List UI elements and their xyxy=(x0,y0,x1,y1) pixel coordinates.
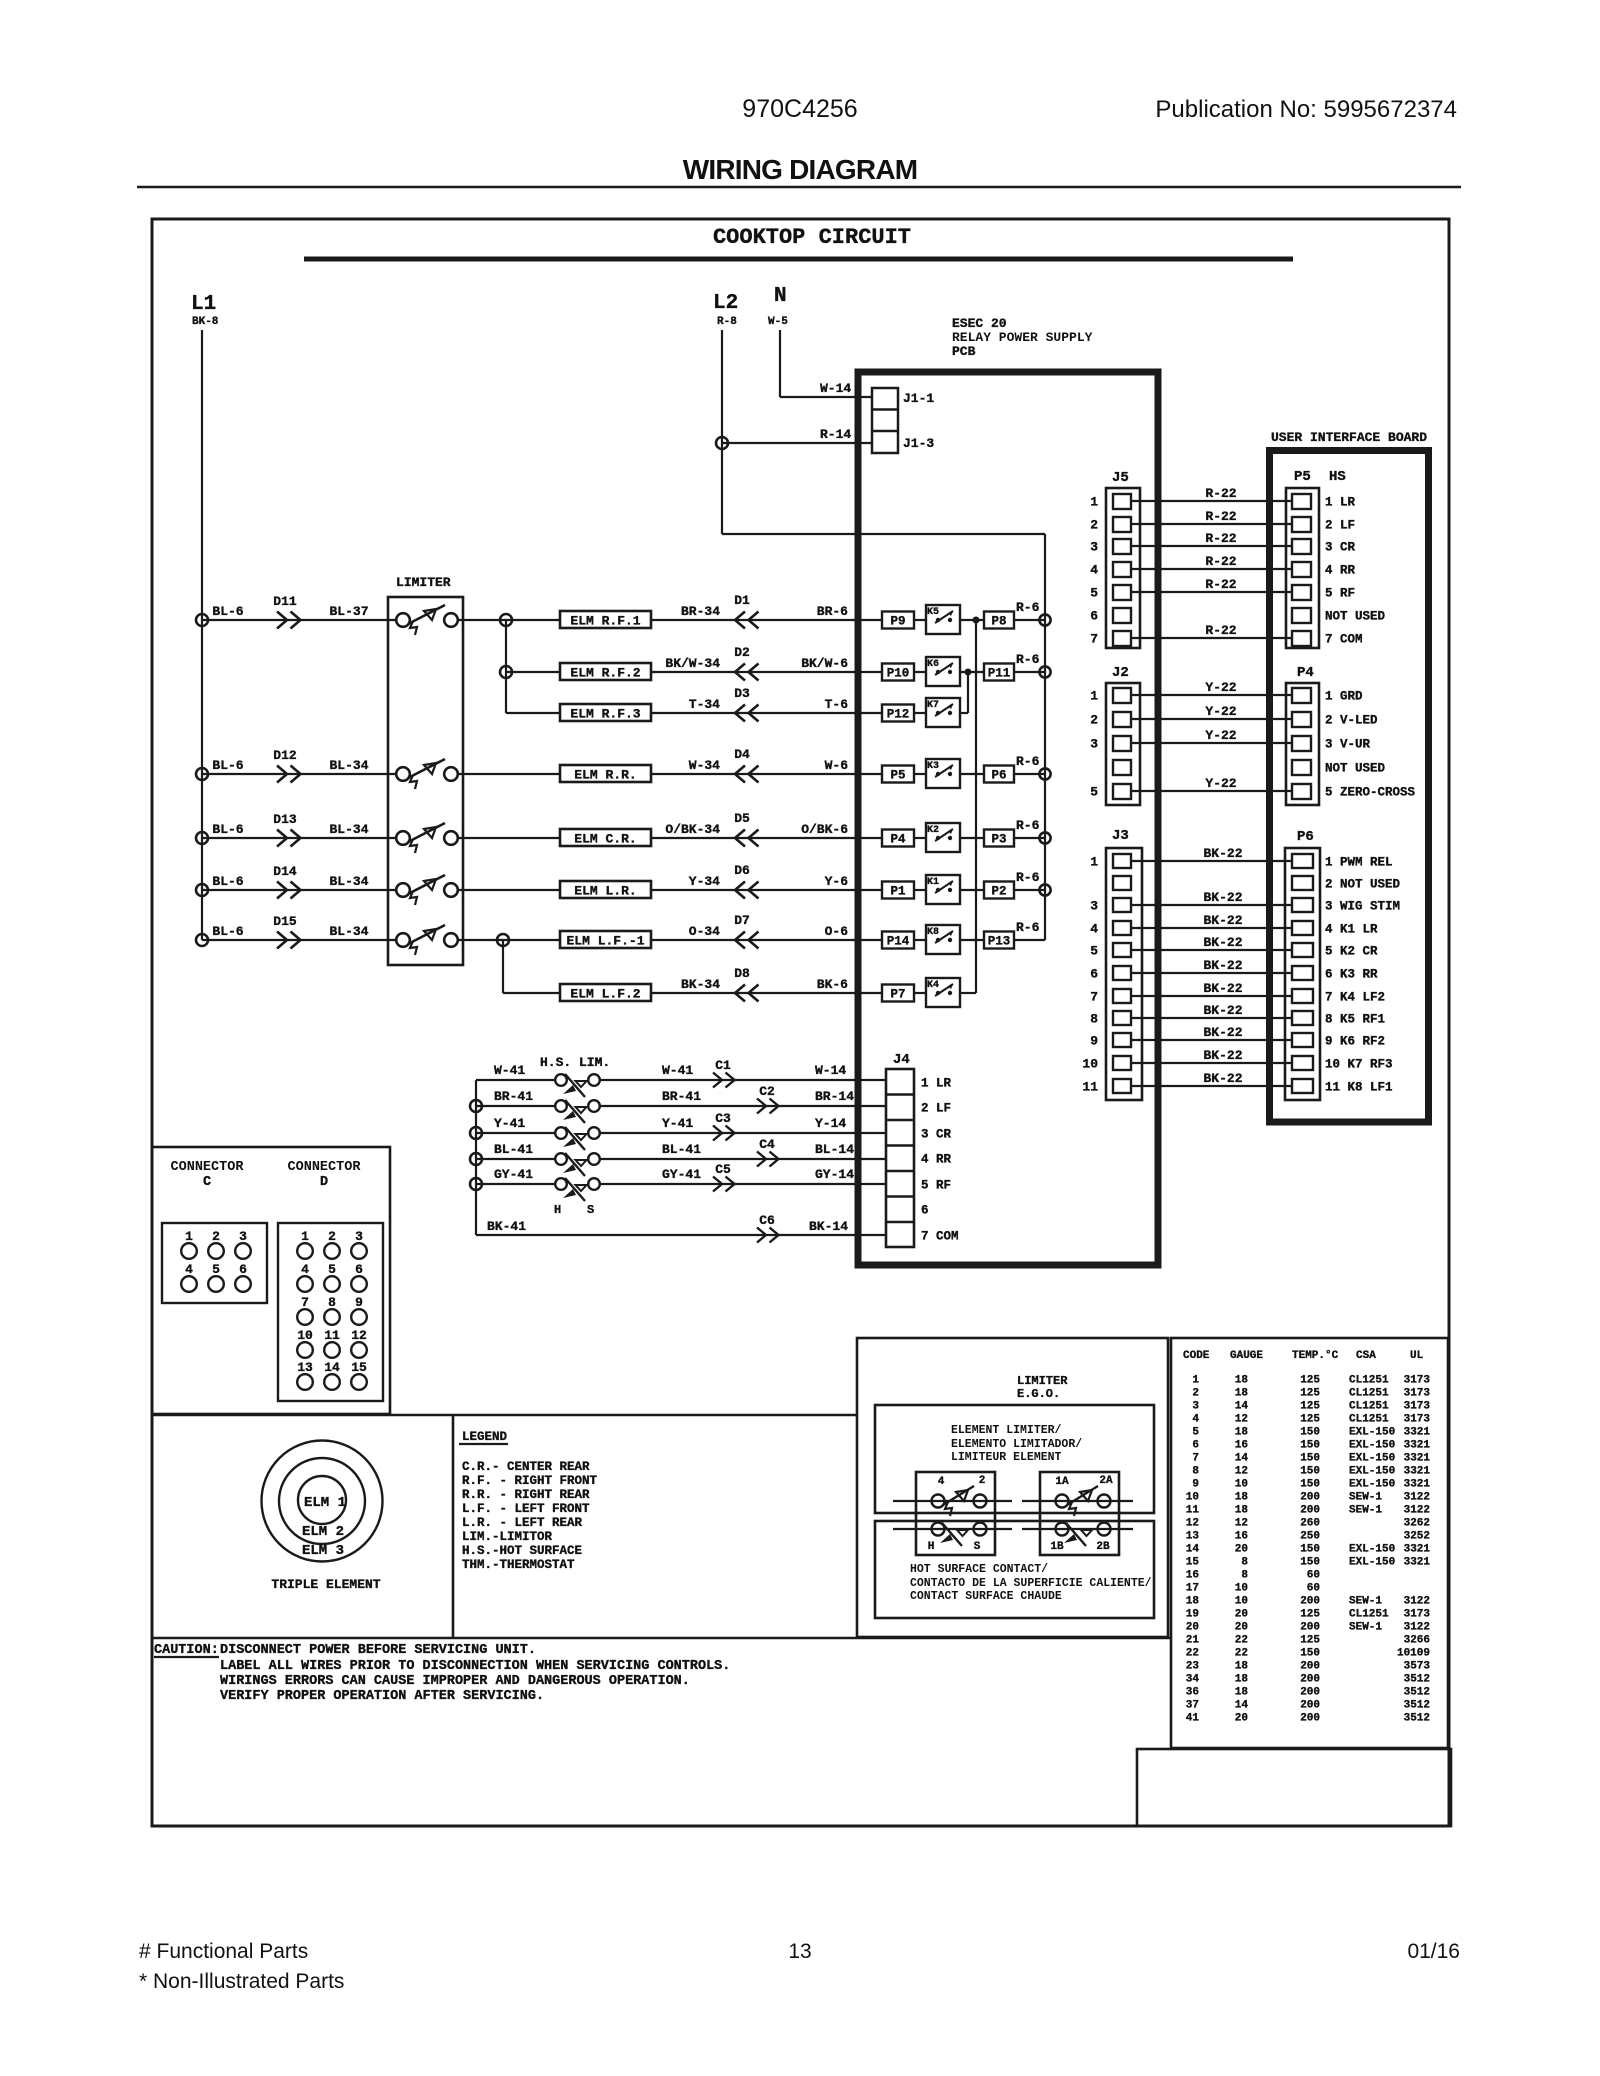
wire Y-41 to hot-surface switch xyxy=(476,1132,555,1134)
svg-text:PCB: PCB xyxy=(952,344,976,359)
wire from limiter switch to element ELM C.R. xyxy=(458,837,560,839)
svg-text:22: 22 xyxy=(1235,1648,1248,1660)
element limiter switch box pins 1A-2A xyxy=(1040,1472,1119,1555)
svg-text:13: 13 xyxy=(297,1360,313,1375)
svg-text:R-6: R-6 xyxy=(1016,600,1040,615)
connector P5 pin 2 LF xyxy=(1292,517,1311,532)
svg-text:D3: D3 xyxy=(734,686,750,701)
svg-text:P6: P6 xyxy=(991,769,1006,783)
svg-text:13: 13 xyxy=(1186,1531,1200,1543)
wire Y-22 J2 to P4 xyxy=(1131,718,1292,720)
wire BL-41 to hot-surface switch xyxy=(476,1158,555,1160)
svg-text:3573: 3573 xyxy=(1404,1661,1431,1673)
junction circle on R-6 bus xyxy=(1039,768,1050,779)
svg-text:CODE: CODE xyxy=(1183,1350,1210,1362)
svg-text:R-6: R-6 xyxy=(1016,652,1040,667)
svg-text:36: 36 xyxy=(1186,1687,1199,1699)
svg-text:BL-34: BL-34 xyxy=(329,758,368,773)
svg-text:TRIPLE ELEMENT: TRIPLE ELEMENT xyxy=(271,1577,380,1592)
svg-text:CONNECTOR: CONNECTOR xyxy=(171,1160,245,1175)
svg-text:5: 5 xyxy=(1090,785,1098,800)
svg-text:23: 23 xyxy=(1186,1661,1200,1673)
svg-text:D15: D15 xyxy=(273,914,297,929)
svg-text:3 V-UR: 3 V-UR xyxy=(1325,738,1371,752)
svg-text:1B: 1B xyxy=(1050,1541,1064,1553)
svg-text:CL1251: CL1251 xyxy=(1349,1414,1389,1426)
svg-text:D11: D11 xyxy=(273,594,297,609)
svg-text:W-41: W-41 xyxy=(662,1063,693,1078)
connector J2 pin xyxy=(1113,784,1131,799)
svg-text:3321: 3321 xyxy=(1404,1479,1431,1491)
svg-text:7: 7 xyxy=(1090,632,1098,647)
svg-text:LIMITER: LIMITER xyxy=(396,575,451,590)
svg-text:970C4256: 970C4256 xyxy=(742,95,857,123)
wire P5 to relay K3 xyxy=(914,773,926,775)
svg-text:6: 6 xyxy=(239,1262,247,1277)
svg-text:ELM R.F.1: ELM R.F.1 xyxy=(570,614,640,629)
svg-text:1: 1 xyxy=(301,1229,309,1244)
svg-text:K8: K8 xyxy=(927,927,939,938)
connector P6 pin 9 K6 RF2 xyxy=(1292,1033,1313,1047)
wire BK-22 J3 to P6 xyxy=(1131,1039,1292,1041)
svg-text:D7: D7 xyxy=(734,913,750,928)
svg-text:4: 4 xyxy=(185,1262,193,1277)
svg-text:3321: 3321 xyxy=(1404,1544,1431,1556)
svg-text:BR-14: BR-14 xyxy=(815,1089,854,1104)
wire P6 to R-6 bus xyxy=(1014,773,1045,775)
svg-text:J4: J4 xyxy=(893,1052,910,1068)
svg-text:1: 1 xyxy=(1090,855,1098,870)
svg-text:P9: P9 xyxy=(890,615,905,629)
wire Y-22 J2 to P4 xyxy=(1131,742,1292,744)
svg-text:3173: 3173 xyxy=(1404,1375,1431,1387)
wire branch to element ELM L.F.2 xyxy=(503,992,560,994)
svg-text:10: 10 xyxy=(1082,1057,1098,1072)
svg-text:150: 150 xyxy=(1300,1427,1320,1439)
wire hot-surface bus vertical xyxy=(475,1080,477,1235)
svg-text:5: 5 xyxy=(1192,1427,1199,1439)
connector P5 pin 1 LR xyxy=(1292,494,1311,509)
svg-text:200: 200 xyxy=(1300,1622,1320,1634)
svg-text:11: 11 xyxy=(324,1328,340,1343)
svg-text:150: 150 xyxy=(1300,1440,1320,1452)
svg-text:3122: 3122 xyxy=(1404,1505,1430,1517)
svg-text:C.R.- CENTER REAR: C.R.- CENTER REAR xyxy=(462,1460,590,1474)
svg-text:CAUTION:: CAUTION: xyxy=(154,1643,219,1658)
divider between triple element and legend xyxy=(452,1415,455,1638)
wire Y-22 J2 to P4 xyxy=(1131,790,1292,792)
connector P4 pin NOT USED xyxy=(1292,760,1311,775)
svg-text:P13: P13 xyxy=(988,935,1011,949)
svg-text:J1-1: J1-1 xyxy=(903,391,934,406)
junction circle R.F.1 xyxy=(500,614,512,626)
wire L1 vertical bus xyxy=(201,330,203,940)
wire R-22 J5 to P5 xyxy=(1131,545,1292,547)
svg-text:SEW-1: SEW-1 xyxy=(1349,1622,1382,1634)
wire from limiter switch to element ELM R.R. xyxy=(458,773,560,775)
connector arrows C3 xyxy=(713,1126,735,1141)
svg-text:R-6: R-6 xyxy=(1016,870,1040,885)
wire BK-22 J3 to P6 xyxy=(1131,1085,1292,1087)
node circle on L1 bus row D12 xyxy=(196,768,208,780)
svg-text:P12: P12 xyxy=(887,708,910,722)
connector J5 pin 1 xyxy=(1113,494,1131,509)
ESEC 20 relay power supply PCB box xyxy=(858,372,1158,1265)
svg-text:150: 150 xyxy=(1300,1453,1320,1465)
svg-text:3: 3 xyxy=(239,1229,247,1244)
svg-text:T-6: T-6 xyxy=(825,697,849,712)
wire BK/W-34 from ELM R.F.2 to ESEC P10 xyxy=(651,671,882,673)
svg-text:4: 4 xyxy=(1090,922,1098,937)
wire P14 to relay K8 xyxy=(914,939,926,941)
svg-text:TEMP.°C: TEMP.°C xyxy=(1292,1350,1339,1362)
svg-text:3321: 3321 xyxy=(1404,1427,1431,1439)
svg-text:3512: 3512 xyxy=(1404,1713,1430,1725)
svg-text:BK-22: BK-22 xyxy=(1203,958,1242,973)
junction dot at K5 output xyxy=(973,617,980,624)
svg-text:CONTACT SURFACE CHAUDE: CONTACT SURFACE CHAUDE xyxy=(910,1590,1062,1603)
connector J3 pin xyxy=(1113,1033,1131,1047)
junction circle on R-6 bus xyxy=(1039,884,1050,895)
wire BK-22 J3 to P6 xyxy=(1131,904,1292,906)
svg-text:3173: 3173 xyxy=(1404,1609,1431,1621)
connector J5 pin 4 xyxy=(1113,562,1131,577)
connector arrows D4 xyxy=(735,766,759,783)
svg-text:12: 12 xyxy=(1235,1518,1248,1530)
wire R-6 bus vertical xyxy=(1044,534,1046,940)
element limiter switch box pins 4-2 xyxy=(916,1472,995,1555)
svg-text:2 V-LED: 2 V-LED xyxy=(1325,714,1378,728)
svg-text:C2: C2 xyxy=(759,1084,775,1099)
connector C pin box xyxy=(162,1223,267,1303)
svg-text:260: 260 xyxy=(1300,1518,1320,1530)
wire from limiter switch to element ELM R.F.1 xyxy=(458,619,560,621)
element limiter contact 4-2 xyxy=(932,1495,945,1508)
wire P7 to relay K4 xyxy=(914,992,926,994)
wire BL-6 from L1 bus to limiter row D13 xyxy=(202,837,395,839)
junction circle on R-6 bus xyxy=(1039,614,1050,625)
svg-text:Y-22: Y-22 xyxy=(1205,680,1236,695)
svg-text:BK-8: BK-8 xyxy=(192,316,219,328)
svg-text:WIRING DIAGRAM: WIRING DIAGRAM xyxy=(683,154,918,185)
connector arrows D3 xyxy=(735,705,759,722)
terminal P11 xyxy=(984,664,1014,681)
divider line above caution xyxy=(152,1637,1171,1640)
terminal P14 xyxy=(882,932,914,949)
USER INTERFACE BOARD box xyxy=(1270,451,1429,1123)
wire Y-22 J2 to P4 xyxy=(1131,694,1292,696)
terminal P3 xyxy=(984,830,1014,847)
connector P6 pin 4 K1 LR xyxy=(1292,921,1313,935)
wire branch to element ELM R.F.2 xyxy=(506,671,560,673)
svg-text:UL: UL xyxy=(1410,1350,1424,1362)
wire BR-41 to hot-surface switch xyxy=(476,1105,555,1107)
svg-text:4 K1 LR: 4 K1 LR xyxy=(1325,923,1378,937)
svg-text:ELM R.F.2: ELM R.F.2 xyxy=(570,666,640,681)
element box ELM R.F.3 xyxy=(560,704,651,721)
svg-text:14: 14 xyxy=(1235,1700,1249,1712)
wire from limiter switch to element ELM L.R. xyxy=(458,889,560,891)
svg-text:5: 5 xyxy=(328,1262,336,1277)
connector P6 pin 11 K8 LF1 xyxy=(1292,1079,1313,1093)
relay contact K3 xyxy=(926,759,960,788)
svg-text:W-5: W-5 xyxy=(768,316,788,328)
limiter switch for row D14 xyxy=(396,883,410,897)
svg-text:41: 41 xyxy=(1186,1713,1200,1725)
wire R-22 J5 to P5 xyxy=(1131,500,1292,502)
svg-text:THM.-THERMOSTAT: THM.-THERMOSTAT xyxy=(462,1558,575,1572)
wire Y-34 from ELM L.R. to ESEC P1 xyxy=(651,889,882,891)
svg-text:125: 125 xyxy=(1300,1375,1320,1387)
svg-text:6 K3 RR: 6 K3 RR xyxy=(1325,968,1378,982)
svg-text:17: 17 xyxy=(1186,1583,1199,1595)
element box ELM C.R. xyxy=(560,829,651,846)
svg-text:O/BK-34: O/BK-34 xyxy=(665,822,720,837)
connector arrows D5 xyxy=(735,830,759,847)
wire GY-41 to hot-surface switch xyxy=(476,1183,555,1185)
terminal P9 xyxy=(882,612,914,629)
svg-text:CONTACTO DE LA SUPERFICIE CALI: CONTACTO DE LA SUPERFICIE CALIENTE/ xyxy=(910,1577,1152,1590)
svg-text:R-6: R-6 xyxy=(1016,920,1040,935)
svg-text:Publication No: 5995672374: Publication No: 5995672374 xyxy=(1155,96,1457,123)
svg-text:8: 8 xyxy=(1192,1466,1199,1478)
element limiter inner box xyxy=(875,1405,1154,1513)
connector J2 xyxy=(1106,683,1140,805)
connector C and D box xyxy=(152,1147,390,1414)
svg-text:BL-6: BL-6 xyxy=(212,874,243,889)
connector P5 pin 5 RF xyxy=(1292,585,1311,600)
svg-text:4 RR: 4 RR xyxy=(1325,564,1356,578)
hot surface contact 1B-2B xyxy=(1056,1523,1069,1536)
wire BR-34 from ELM R.F.1 to ESEC P9 xyxy=(651,619,882,621)
svg-text:* Non-Illustrated Parts: * Non-Illustrated Parts xyxy=(139,1970,344,1993)
node circle on L1 bus row D14 xyxy=(196,884,208,896)
svg-text:BK-22: BK-22 xyxy=(1203,913,1242,928)
svg-text:BR-6: BR-6 xyxy=(817,604,848,619)
svg-text:K2: K2 xyxy=(927,825,939,836)
svg-text:GY-41: GY-41 xyxy=(662,1167,701,1182)
svg-text:P5: P5 xyxy=(890,769,905,783)
svg-text:LABEL ALL WIRES PRIOR TO DISCO: LABEL ALL WIRES PRIOR TO DISCONNECTION W… xyxy=(220,1659,730,1674)
connector P4 xyxy=(1286,683,1319,805)
svg-text:D1: D1 xyxy=(734,593,750,608)
connector arrows D14 xyxy=(277,882,301,899)
wire W-14 to J1-1 xyxy=(780,396,872,398)
wire through element limiter contacts xyxy=(893,1500,1012,1502)
svg-text:150: 150 xyxy=(1300,1544,1320,1556)
node circle on L1 bus row D15 xyxy=(196,934,208,946)
svg-text:C: C xyxy=(203,1175,211,1190)
svg-text:D14: D14 xyxy=(273,864,297,879)
svg-text:3321: 3321 xyxy=(1404,1466,1431,1478)
junction circle L.F.-1 xyxy=(497,934,509,946)
svg-text:16: 16 xyxy=(1235,1531,1248,1543)
svg-text:P4: P4 xyxy=(1297,665,1314,681)
connector J5 pin 2 xyxy=(1113,517,1131,532)
svg-text:Y-41: Y-41 xyxy=(662,1116,693,1131)
terminal P2 xyxy=(984,882,1014,899)
svg-text:34: 34 xyxy=(1186,1674,1200,1686)
svg-text:BK-22: BK-22 xyxy=(1203,1025,1242,1040)
svg-text:125: 125 xyxy=(1300,1401,1320,1413)
wire P4 to relay K2 xyxy=(914,837,926,839)
svg-text:CL1251: CL1251 xyxy=(1349,1375,1389,1387)
svg-text:SEW-1: SEW-1 xyxy=(1349,1596,1382,1608)
svg-text:C5: C5 xyxy=(715,1162,731,1177)
svg-text:BL-41: BL-41 xyxy=(494,1142,533,1157)
svg-text:9: 9 xyxy=(355,1295,363,1310)
svg-text:9: 9 xyxy=(1192,1479,1199,1491)
wire O-34 from ELM L.F.-1 to ESEC P14 xyxy=(651,939,882,941)
svg-text:NOT USED: NOT USED xyxy=(1325,762,1386,776)
svg-text:WIRINGS ERRORS CAN CAUSE IMPRO: WIRINGS ERRORS CAN CAUSE IMPROPER AND DA… xyxy=(220,1674,690,1689)
connector P6 pin 3 WIG STIM xyxy=(1292,898,1313,912)
svg-text:200: 200 xyxy=(1300,1492,1320,1504)
svg-text:15: 15 xyxy=(351,1360,367,1375)
svg-text:EXL-150: EXL-150 xyxy=(1349,1479,1395,1491)
wire P1 to relay K1 xyxy=(914,889,926,891)
relay contact K1 xyxy=(926,875,960,904)
svg-text:ELM 1: ELM 1 xyxy=(304,1495,346,1511)
svg-text:1 GRD: 1 GRD xyxy=(1325,690,1363,704)
svg-text:CL1251: CL1251 xyxy=(1349,1401,1389,1413)
connector P6 pin 2 NOT USED xyxy=(1292,876,1313,890)
wire K1 output to P2 xyxy=(960,889,984,891)
svg-text:1A: 1A xyxy=(1055,1476,1069,1488)
svg-text:H: H xyxy=(928,1541,935,1553)
svg-text:K1: K1 xyxy=(927,877,939,888)
connector J2 pin xyxy=(1113,712,1131,727)
wire Y-41 from switch to J4 xyxy=(600,1132,886,1134)
svg-text:150: 150 xyxy=(1300,1466,1320,1478)
svg-text:ELM L.F.-1: ELM L.F.-1 xyxy=(566,934,644,949)
svg-text:10: 10 xyxy=(1186,1492,1199,1504)
svg-text:R-22: R-22 xyxy=(1205,577,1236,592)
svg-text:8: 8 xyxy=(1241,1570,1248,1582)
terminal P8 xyxy=(984,612,1014,629)
connector P6 pin 5 K2 CR xyxy=(1292,943,1313,957)
svg-text:W-14: W-14 xyxy=(815,1063,846,1078)
connector J3 pin xyxy=(1113,1011,1131,1025)
wire K5 output to P8 xyxy=(960,619,984,621)
element box ELM R.R. xyxy=(560,765,651,782)
svg-text:R-6: R-6 xyxy=(1016,754,1040,769)
node circle on L1 bus row D13 xyxy=(196,832,208,844)
svg-text:ELM 3: ELM 3 xyxy=(302,1543,344,1559)
svg-text:R-22: R-22 xyxy=(1205,623,1236,638)
junction circle on R-6 bus xyxy=(1039,832,1050,843)
svg-text:H.S.-HOT SURFACE: H.S.-HOT SURFACE xyxy=(462,1544,582,1558)
svg-text:R-8: R-8 xyxy=(717,316,737,328)
svg-text:2B: 2B xyxy=(1096,1541,1110,1553)
svg-text:Y-14: Y-14 xyxy=(815,1116,846,1131)
svg-text:GY-14: GY-14 xyxy=(815,1167,854,1182)
wire BK-22 J3 to P6 xyxy=(1131,949,1292,951)
svg-text:13: 13 xyxy=(788,1940,811,1963)
connector P6 xyxy=(1285,848,1320,1100)
svg-text:ELEMENTO LIMITADOR/: ELEMENTO LIMITADOR/ xyxy=(951,1438,1082,1451)
svg-text:R.F. - RIGHT FRONT: R.F. - RIGHT FRONT xyxy=(462,1474,598,1488)
wire BL-6 from L1 bus to limiter row D15 xyxy=(202,939,395,941)
svg-text:10: 10 xyxy=(1235,1583,1248,1595)
svg-text:10 K7 RF3: 10 K7 RF3 xyxy=(1325,1058,1393,1072)
svg-text:200: 200 xyxy=(1300,1661,1320,1673)
svg-text:7 COM: 7 COM xyxy=(1325,633,1363,647)
svg-text:GAUGE: GAUGE xyxy=(1230,1350,1263,1362)
svg-text:5: 5 xyxy=(1090,944,1098,959)
cooktop circuit outer box xyxy=(152,219,1449,1826)
svg-text:T-34: T-34 xyxy=(689,697,720,712)
svg-text:ELM R.F.3: ELM R.F.3 xyxy=(570,707,640,722)
header rule xyxy=(137,186,1461,188)
svg-text:BK/W-6: BK/W-6 xyxy=(801,656,848,671)
svg-text:BK-41: BK-41 xyxy=(487,1219,526,1234)
connector arrows D11 xyxy=(277,612,301,629)
svg-text:K5: K5 xyxy=(927,607,939,618)
svg-text:1: 1 xyxy=(185,1229,193,1244)
wire GY-41 from switch to J4 xyxy=(600,1183,886,1185)
svg-text:DISCONNECT POWER BEFORE SERVIC: DISCONNECT POWER BEFORE SERVICING UNIT. xyxy=(220,1643,536,1658)
junction vertical for R.F. elements xyxy=(505,620,507,713)
svg-text:EXL-150: EXL-150 xyxy=(1349,1453,1395,1465)
svg-text:LIMITER: LIMITER xyxy=(1017,1374,1068,1388)
connector arrows C6 xyxy=(757,1228,779,1243)
svg-text:7: 7 xyxy=(301,1295,309,1310)
relay contact K2 xyxy=(926,823,960,852)
svg-text:18: 18 xyxy=(1235,1427,1249,1439)
svg-text:2 LF: 2 LF xyxy=(921,1102,951,1116)
connector J3 pin xyxy=(1113,989,1131,1003)
svg-text:J2: J2 xyxy=(1112,665,1129,681)
svg-text:3512: 3512 xyxy=(1404,1700,1430,1712)
wire from limiter switch to element ELM L.F.-1 xyxy=(458,939,560,941)
svg-text:R-14: R-14 xyxy=(820,427,851,442)
svg-text:Y-41: Y-41 xyxy=(494,1116,525,1131)
wire W-41 to hot-surface switch xyxy=(476,1079,555,1081)
hot surface limiter switch Y-41 xyxy=(555,1127,567,1139)
wire BL-6 from L1 bus to limiter row D11 xyxy=(202,619,395,621)
svg-text:3252: 3252 xyxy=(1404,1531,1430,1543)
wire BK-34 from ELM L.F.2 to ESEC P7 xyxy=(651,992,882,994)
svg-text:3122: 3122 xyxy=(1404,1596,1430,1608)
svg-text:BK-22: BK-22 xyxy=(1203,890,1242,905)
svg-text:1 LR: 1 LR xyxy=(921,1077,952,1091)
svg-text:16: 16 xyxy=(1186,1570,1199,1582)
terminal P7 xyxy=(882,985,914,1002)
svg-text:P5: P5 xyxy=(1294,469,1311,485)
svg-text:150: 150 xyxy=(1300,1557,1320,1569)
svg-text:R.R. - RIGHT REAR: R.R. - RIGHT REAR xyxy=(462,1488,590,1502)
svg-text:BR-34: BR-34 xyxy=(681,604,720,619)
svg-text:BK-22: BK-22 xyxy=(1203,1048,1242,1063)
wire P3 to R-6 bus xyxy=(1014,837,1045,839)
wire P9 to relay K5 xyxy=(914,619,926,621)
connector P6 pin 10 K7 RF3 xyxy=(1292,1056,1313,1070)
svg-text:2: 2 xyxy=(212,1229,220,1244)
wire L2 to R-6 bus horizontal xyxy=(722,533,1045,535)
svg-text:20: 20 xyxy=(1186,1622,1199,1634)
revision box bottom right xyxy=(1137,1749,1451,1826)
svg-text:BR-41: BR-41 xyxy=(662,1089,701,1104)
wire BK-22 J3 to P6 xyxy=(1131,995,1292,997)
svg-text:4: 4 xyxy=(1192,1414,1199,1426)
svg-text:16: 16 xyxy=(1235,1440,1248,1452)
svg-text:11: 11 xyxy=(1186,1505,1200,1517)
svg-text:12: 12 xyxy=(1235,1466,1248,1478)
svg-text:VERIFY PROPER OPERATION AFTER: VERIFY PROPER OPERATION AFTER SERVICING. xyxy=(220,1689,544,1704)
svg-text:HOT SURFACE CONTACT/: HOT SURFACE CONTACT/ xyxy=(910,1563,1048,1576)
svg-text:14: 14 xyxy=(1235,1453,1249,1465)
